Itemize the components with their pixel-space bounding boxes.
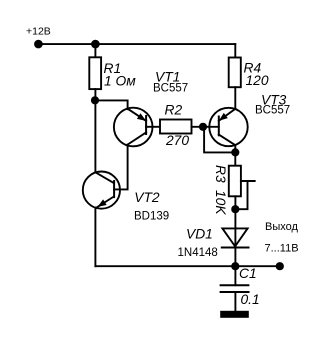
- wire left rail R1 bottom to VT2 collector: [94, 89, 96, 172]
- junction output node: [231, 262, 239, 270]
- svg-text:1N4148: 1N4148: [178, 247, 218, 259]
- svg-text:7...11В: 7...11В: [265, 243, 299, 255]
- svg-text:BD139: BD139: [134, 211, 169, 223]
- svg-text:270: 270: [165, 133, 189, 148]
- wire R3 bottom to VD1 anode: [234, 196, 236, 247]
- wire output node to C1: [234, 266, 236, 285]
- wire R1 top lead: [94, 44, 96, 57]
- svg-text:BC557: BC557: [255, 105, 290, 117]
- wire bottom rail: [95, 265, 279, 267]
- svg-text:VT2: VT2: [134, 190, 160, 205]
- svg-text:BC557: BC557: [153, 83, 188, 95]
- svg-text:R3: R3: [213, 165, 228, 183]
- svg-text:10K: 10K: [213, 190, 228, 215]
- wire R2 to VT3 base: [192, 126, 219, 128]
- diode VD1: [222, 228, 249, 247]
- resistor R3: [229, 166, 241, 197]
- capacitor C1: [221, 285, 249, 292]
- svg-text:+12В: +12В: [26, 26, 51, 38]
- wire top rail: [38, 43, 235, 45]
- wire base-collector link of VT3: [204, 127, 235, 153]
- wire R3 tap down link: [235, 181, 247, 209]
- wire R4 to VT3 emitter: [234, 87, 236, 109]
- svg-text:Выход: Выход: [265, 221, 298, 233]
- resistor R1: [89, 57, 101, 89]
- svg-text:VD1: VD1: [186, 226, 213, 241]
- wire VT3 collector to R3: [234, 145, 236, 166]
- junction VT3 collector node: [231, 148, 239, 156]
- wire VT1 collector to VT2 base: [114, 145, 127, 190]
- transistor VT1 (PNP BC557): [114, 108, 153, 147]
- resistor R4: [229, 58, 241, 88]
- output terminal dot: [276, 262, 284, 270]
- svg-text:0.1: 0.1: [241, 292, 260, 307]
- wire R3 tap overhang: [241, 180, 255, 182]
- +12V terminal dot: [34, 40, 43, 49]
- wire C1 to ground: [234, 292, 236, 311]
- junction VT3 base node: [199, 123, 207, 131]
- wire VD1 cathode to output node: [234, 248, 236, 267]
- ground: [220, 311, 249, 318]
- junction R3 bottom node: [231, 205, 239, 213]
- wire VT1 base to R2: [146, 126, 160, 128]
- junction R1 bottom: [91, 96, 99, 104]
- wire junction to VT1 emitter: [95, 100, 128, 109]
- resistor R2: [160, 120, 192, 134]
- svg-text:120: 120: [246, 73, 269, 88]
- wire R4 top lead: [234, 44, 236, 57]
- svg-text:C1: C1: [239, 266, 257, 281]
- wire VT2 emitter down: [94, 208, 96, 267]
- transistor VT3 (PNP BC557): [209, 108, 247, 146]
- transistor VT2 (NPN BD139): [83, 172, 120, 209]
- svg-text:1 Ом: 1 Ом: [104, 74, 136, 89]
- junction top of R1: [91, 40, 100, 49]
- svg-text:R2: R2: [165, 102, 183, 117]
